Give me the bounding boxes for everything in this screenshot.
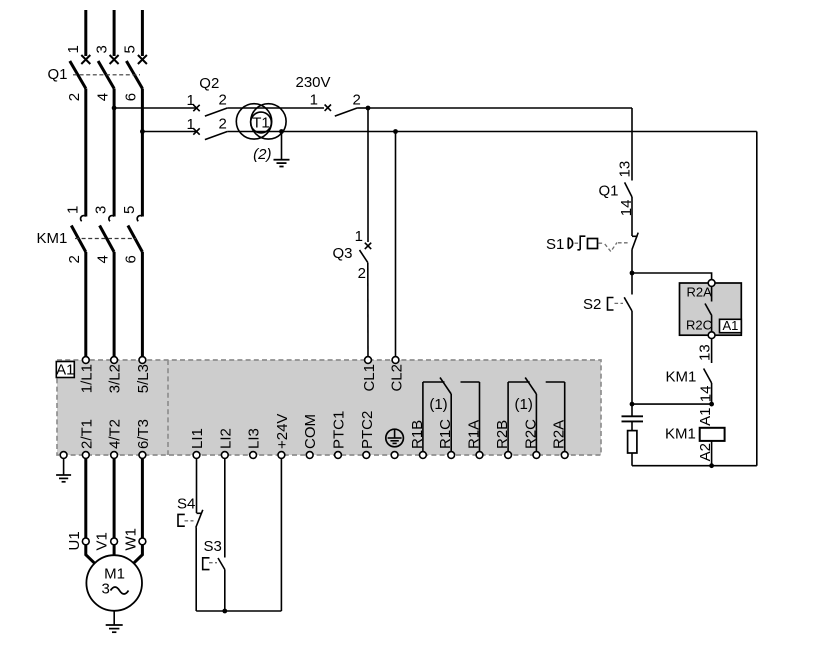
wire phase L1 top xyxy=(84,10,87,56)
node junction L3 to control wire 2 xyxy=(140,129,145,134)
svg-text:13: 13 xyxy=(617,161,634,178)
wire branch to R2A xyxy=(632,273,712,280)
capacitor plates xyxy=(622,416,644,421)
S1 actuator dashed link with trip v xyxy=(575,243,629,252)
wire U1 to motor xyxy=(86,545,95,564)
relay R1 internal wiring xyxy=(423,378,480,452)
svg-text:1: 1 xyxy=(310,92,318,109)
terminal PTC1 xyxy=(331,411,348,459)
svg-text:Q3: Q3 xyxy=(333,245,353,262)
wire S2 to RC node xyxy=(631,311,633,404)
S1 operator square xyxy=(588,239,598,249)
ground symbol T1 xyxy=(274,160,290,167)
wire 2/T1 to motor xyxy=(84,458,87,538)
relay output block R2 gray box xyxy=(680,283,742,335)
svg-text:5: 5 xyxy=(121,206,138,214)
svg-text:S2: S2 xyxy=(583,296,601,313)
svg-text:W1: W1 xyxy=(122,528,139,551)
svg-text:230V: 230V xyxy=(296,74,331,91)
svg-text:(2): (2) xyxy=(253,146,271,163)
svg-text:S4: S4 xyxy=(177,496,195,513)
node junction LI2 bottom xyxy=(222,609,227,614)
dashed divider power/control xyxy=(167,360,169,455)
svg-text:LI2: LI2 xyxy=(217,428,234,449)
S2 actuator dashed link xyxy=(615,302,624,304)
wire T1 ground stem xyxy=(281,132,283,160)
terminal R2A xyxy=(551,420,568,459)
wire ground pin stem xyxy=(63,458,65,475)
terminal 2/T1 xyxy=(78,419,95,458)
wire phase L3 top xyxy=(141,10,144,56)
circuit breaker Q1 pole 3 xyxy=(126,55,146,89)
terminal LI1 xyxy=(189,428,206,458)
terminal R2C xyxy=(522,419,539,459)
switch 230V control xyxy=(325,105,358,117)
wire KM1 aux to node xyxy=(711,383,713,404)
svg-text:2: 2 xyxy=(358,265,366,282)
svg-text:COM: COM xyxy=(302,414,319,449)
svg-text:KM1: KM1 xyxy=(37,230,68,247)
node junction KM1 aux / RC xyxy=(709,402,714,407)
terminal R1A xyxy=(466,420,483,459)
wire resistor to bottom xyxy=(631,453,633,466)
wire control line 2 from L3 xyxy=(142,131,196,133)
wire V1 to motor xyxy=(113,545,116,555)
node junction T1 ground tap xyxy=(279,129,284,134)
wire L3 Q1 to KM1 xyxy=(141,89,144,217)
svg-text:U1: U1 xyxy=(66,531,83,550)
wire phase L2 top xyxy=(113,10,116,56)
wire R2C to KM1 aux xyxy=(711,339,713,363)
S4 actuator dashed link xyxy=(185,520,194,522)
wire L2 KM1 to starter xyxy=(113,252,116,357)
switch Q2 pole 1 xyxy=(193,105,227,116)
wire capacitor to resistor xyxy=(631,421,633,430)
wire right side return up xyxy=(756,132,758,466)
svg-text:CL1: CL1 xyxy=(361,364,378,392)
contact S2 normally open xyxy=(624,297,632,311)
terminal 4/T2 xyxy=(107,419,124,458)
wire CL1 branch upper xyxy=(367,108,369,242)
coil KM1 xyxy=(700,428,725,441)
terminal W1 xyxy=(122,528,145,551)
svg-text:2: 2 xyxy=(66,255,83,263)
terminal 3/L2 xyxy=(107,357,124,394)
contactor KM1 pole 1 xyxy=(71,216,86,252)
motor M1 circle xyxy=(86,555,142,611)
svg-text:4: 4 xyxy=(94,93,111,101)
contact S3 normally open xyxy=(218,558,225,570)
terminal LI2 xyxy=(217,428,234,458)
svg-text:6/T3: 6/T3 xyxy=(135,419,152,449)
terminal CL2 xyxy=(389,357,406,392)
svg-text:+24V: +24V xyxy=(274,414,291,449)
node junction CL1 branch xyxy=(366,106,371,111)
svg-text:A1: A1 xyxy=(56,362,74,379)
KM1 mechanical link dashed xyxy=(75,238,136,240)
svg-text:2: 2 xyxy=(219,116,227,133)
soft starter unit A1 dashed box xyxy=(57,360,601,455)
motor AC tilde xyxy=(111,587,129,594)
svg-text:2: 2 xyxy=(219,92,227,109)
svg-text:3: 3 xyxy=(93,45,110,53)
svg-text:13: 13 xyxy=(697,344,714,361)
wire Q2 to T1 line 1 xyxy=(227,107,324,109)
pushbutton operator S4 xyxy=(178,514,185,526)
terminal +24V xyxy=(274,414,291,459)
S1 mushroom head operator xyxy=(568,238,572,249)
wire 230V switch to node xyxy=(357,107,368,109)
S3 actuator dashed link xyxy=(209,562,217,564)
svg-text:4: 4 xyxy=(94,255,111,263)
wire +24V down xyxy=(280,458,282,611)
svg-text:1: 1 xyxy=(64,206,81,214)
terminal 5/L3 xyxy=(135,357,152,394)
svg-text:LI3: LI3 xyxy=(246,428,263,449)
pushbutton operator S2 xyxy=(608,298,614,311)
transformer T1 left circle xyxy=(236,104,271,139)
designator box A1 xyxy=(56,362,74,379)
svg-text:2: 2 xyxy=(66,93,83,101)
terminal earth with PE symbol xyxy=(386,429,404,458)
contactor KM1 pole 2 xyxy=(100,216,115,252)
terminal R2C (block) xyxy=(708,332,715,339)
svg-text:PTC1: PTC1 xyxy=(331,411,348,449)
svg-text:A1: A1 xyxy=(697,408,714,426)
svg-text:A1: A1 xyxy=(722,318,738,333)
svg-text:6: 6 xyxy=(123,255,140,263)
svg-text:T1: T1 xyxy=(252,114,270,131)
ground symbol motor xyxy=(106,625,123,632)
svg-text:R2C: R2C xyxy=(686,317,712,332)
wire CL2 branch xyxy=(395,132,397,361)
svg-text:Q1: Q1 xyxy=(599,183,619,200)
svg-text:2: 2 xyxy=(353,92,361,109)
circuit breaker Q1 pole 1 xyxy=(70,55,91,89)
wire LI1 down xyxy=(196,458,198,513)
terminal CL1 xyxy=(361,357,378,392)
circuit breaker Q1 pole 2 xyxy=(98,55,119,89)
svg-text:3: 3 xyxy=(93,206,110,214)
svg-text:CL2: CL2 xyxy=(389,364,406,392)
svg-text:1/L1: 1/L1 xyxy=(78,364,95,393)
svg-text:R2A: R2A xyxy=(687,285,713,300)
svg-text:2/T1: 2/T1 xyxy=(78,419,95,449)
terminal R2A (block) xyxy=(708,280,715,287)
relay R2 contact inside block xyxy=(705,286,712,331)
svg-text:4/T2: 4/T2 xyxy=(107,419,124,449)
contactor KM1 pole 3 xyxy=(128,216,142,252)
wire S3 to bottom xyxy=(224,570,226,612)
svg-text:PTC2: PTC2 xyxy=(359,411,376,449)
svg-text:3: 3 xyxy=(102,581,110,598)
terminal U1 xyxy=(66,531,89,550)
svg-text:5/L3: 5/L3 xyxy=(135,364,152,393)
wire Q1 aux to S1 xyxy=(631,197,633,236)
terminal COM xyxy=(302,414,319,458)
circuit breaker Q3 xyxy=(360,243,372,263)
svg-text:Q2: Q2 xyxy=(199,75,219,92)
pushbutton operator S3 xyxy=(203,558,210,570)
wire LI2 down xyxy=(224,458,226,557)
svg-text:KM1: KM1 xyxy=(665,426,696,443)
svg-text:S3: S3 xyxy=(204,538,222,555)
designator box A1 (block) xyxy=(720,318,742,333)
node junction CL2 branch xyxy=(393,129,398,134)
svg-text:6: 6 xyxy=(123,93,140,101)
transformer T1 right circle xyxy=(251,104,286,139)
wire node to capacitor xyxy=(631,404,633,415)
wire 4/T2 to motor xyxy=(113,458,116,538)
wire control line 1 down right side xyxy=(631,108,633,181)
svg-text:1: 1 xyxy=(187,116,195,133)
terminal R2B xyxy=(494,420,511,459)
wire L2 Q1 to KM1 xyxy=(113,89,116,217)
wire control line 1 to right xyxy=(368,107,632,109)
wire L3 KM1 to starter xyxy=(141,252,144,357)
terminal LI3 xyxy=(246,428,263,458)
transformer T1 designator circle xyxy=(251,112,272,133)
contact KM1 auxiliary normally open xyxy=(704,369,712,384)
svg-text:LI1: LI1 xyxy=(189,428,206,449)
wire S4 to bottom xyxy=(195,528,197,612)
terminal V1 xyxy=(94,532,118,550)
wire coil to bottom xyxy=(711,441,713,466)
wire S2 top xyxy=(631,273,633,295)
wire W1 to motor xyxy=(134,545,143,564)
terminal ground pin xyxy=(60,452,67,459)
terminal PTC2 xyxy=(359,411,376,459)
wire RC branch horizontal xyxy=(632,403,712,405)
terminal 6/T3 xyxy=(135,419,152,458)
switch Q2 pole 2 xyxy=(193,128,227,139)
svg-text:5: 5 xyxy=(122,45,139,53)
svg-text:S1: S1 xyxy=(546,236,564,253)
wire motor to ground xyxy=(113,611,115,625)
contact Q1 auxiliary normally open xyxy=(625,182,632,197)
wire Q2 to T1 line 2 xyxy=(227,131,395,133)
node junction RC branch xyxy=(630,402,635,407)
wire control line 1 from L2 xyxy=(114,107,196,109)
wire L1 Q1 to KM1 xyxy=(84,89,87,217)
ground symbol below starter xyxy=(56,475,71,482)
wire bottom link LI1 to +24V xyxy=(196,610,281,612)
svg-text:V1: V1 xyxy=(94,532,111,550)
node junction L2 to control wire 1 xyxy=(112,106,117,111)
terminal R1C xyxy=(437,419,454,459)
S1 latch operator xyxy=(577,236,585,250)
wire S1 to node xyxy=(631,250,633,274)
svg-text:KM1: KM1 xyxy=(666,369,697,386)
svg-text:(1): (1) xyxy=(429,396,447,413)
relay R2 internal wiring xyxy=(508,378,565,452)
Q1 mechanical link dashed xyxy=(73,74,140,76)
svg-text:3/L2: 3/L2 xyxy=(107,364,124,393)
contact S4 normally closed xyxy=(196,510,203,528)
resistor rectangle xyxy=(628,431,637,453)
wire 6/T3 to motor xyxy=(141,458,144,538)
wire Q3 to CL1 xyxy=(367,263,369,360)
svg-text:1: 1 xyxy=(355,228,363,245)
contact S1 normally closed xyxy=(632,233,638,250)
svg-text:1: 1 xyxy=(65,45,82,53)
terminal R1B xyxy=(409,420,426,459)
svg-text:Q1: Q1 xyxy=(48,66,68,83)
terminal 1/L1 xyxy=(78,357,95,394)
svg-text:1: 1 xyxy=(187,92,195,109)
wire control line 2 to right xyxy=(396,131,757,133)
svg-text:(1): (1) xyxy=(515,396,533,413)
node junction S1/S2 branch xyxy=(630,271,635,276)
node junction coil bottom xyxy=(709,463,714,468)
wire bottom return xyxy=(632,465,757,467)
wire L1 KM1 to starter xyxy=(84,252,87,357)
